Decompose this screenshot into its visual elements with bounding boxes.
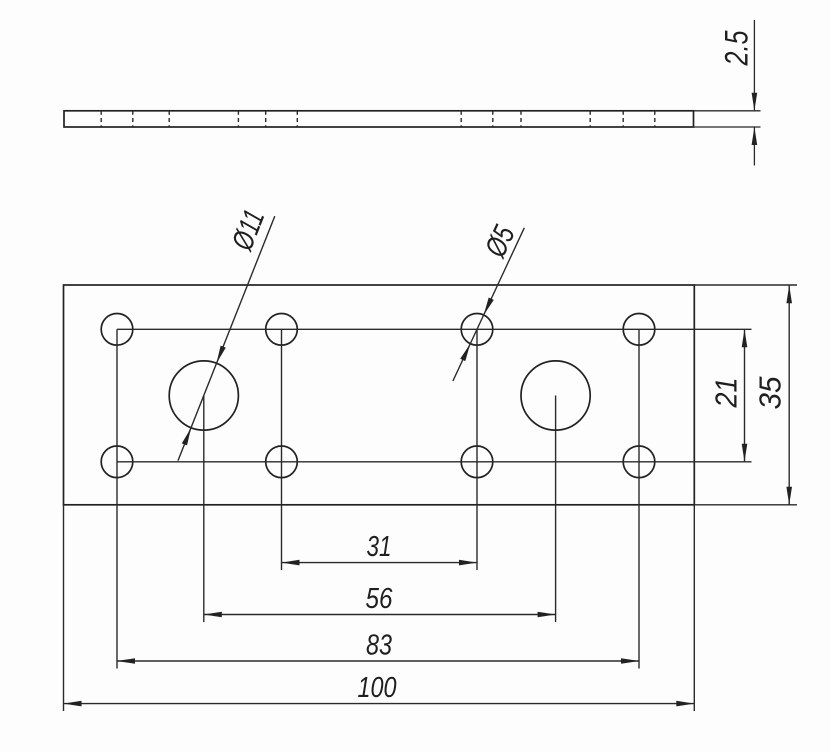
extension line big hole C1 center [203, 396, 205, 623]
arrowhead 2.5 bottom [752, 127, 758, 145]
extension line col x117 [116, 329, 118, 668]
arrowhead 2.5 top [752, 93, 758, 111]
hidden line big hole2 left edge [520, 111, 522, 127]
dimension line 2.5 lower [753, 127, 755, 166]
hidden line hole3 right edge [492, 111, 494, 127]
hole row line top [117, 328, 752, 330]
extension line plate left edge [63, 505, 65, 711]
dimension line 21 [744, 329, 746, 462]
dimension line 100 [64, 703, 695, 705]
arrowhead 100 right [676, 701, 694, 707]
extension line col x477 [476, 329, 478, 570]
svg-text:31: 31 [367, 531, 392, 563]
small hole B2 [266, 446, 298, 478]
arrowhead dia11 upper [217, 346, 226, 364]
arrowhead 31 right [459, 560, 477, 566]
extension line plate top for 35 [694, 284, 797, 286]
small hole A3 [461, 314, 493, 346]
big hole C1 [169, 361, 238, 430]
small hole B4 bottom-right [623, 446, 655, 478]
dimension line 2.5 upper [753, 20, 755, 111]
arrowhead 21 bottom [742, 444, 748, 462]
extension line col x281 [281, 329, 283, 570]
extension line thickness bottom [694, 126, 761, 128]
hidden line hole4 right edge [654, 111, 656, 127]
side view strip outline [64, 111, 694, 127]
dimension line 35 [788, 285, 790, 505]
extension line thickness top [694, 110, 761, 112]
hidden line hole2 left edge [265, 111, 267, 127]
svg-text:83: 83 [366, 630, 392, 662]
extension line plate right edge [693, 505, 695, 711]
svg-text:2.5: 2.5 [719, 30, 755, 66]
svg-text:100: 100 [358, 672, 397, 704]
arrowhead 83 right [621, 658, 639, 664]
hidden line hole3 left edge [460, 111, 462, 127]
extension line col x639 [638, 329, 640, 668]
leader line diameter 11 [178, 216, 275, 461]
arrowhead 21 top [742, 329, 748, 347]
svg-text:21: 21 [709, 378, 744, 409]
hidden line big hole1 left edge [168, 111, 170, 127]
hidden line hole1 left edge [100, 111, 102, 127]
arrowhead 35 top [786, 285, 792, 303]
small hole A1 top-left [101, 314, 133, 346]
arrowhead 35 bottom [786, 487, 792, 505]
hidden line hole4 left edge [622, 111, 624, 127]
extension line big hole C2 center [555, 396, 557, 623]
arrowhead dia5 lower [460, 344, 470, 362]
leader line diameter 5 [453, 228, 524, 381]
arrowhead 83 left [117, 658, 135, 664]
arrowhead 100 left [64, 701, 82, 707]
arrowhead 56 left [204, 612, 222, 618]
hidden line hole1 right edge [132, 111, 134, 127]
arrowhead 56 right [538, 612, 556, 618]
svg-text:35: 35 [753, 376, 788, 410]
arrowhead dia11 lower [182, 428, 191, 446]
dimension line 31 [282, 562, 478, 564]
small hole A2 [266, 314, 298, 346]
hole row line bottom [117, 461, 752, 463]
hidden line big hole1 right edge [237, 111, 239, 127]
arrowhead 31 left [282, 560, 300, 566]
plate outline [64, 285, 695, 505]
dimension line 56 [204, 614, 556, 616]
svg-text:56: 56 [366, 583, 394, 615]
arrowhead dia5 upper [484, 298, 494, 316]
big hole C2 [521, 361, 590, 430]
small hole B3 [461, 446, 493, 478]
small hole A4 top-right [623, 314, 655, 346]
hidden line big hole2 right edge [589, 111, 591, 127]
extension line plate bottom for 35 [694, 504, 797, 506]
hidden line hole2 right edge [296, 111, 298, 127]
small hole B1 bottom-left [101, 446, 133, 478]
dimension line 83 [117, 660, 639, 662]
